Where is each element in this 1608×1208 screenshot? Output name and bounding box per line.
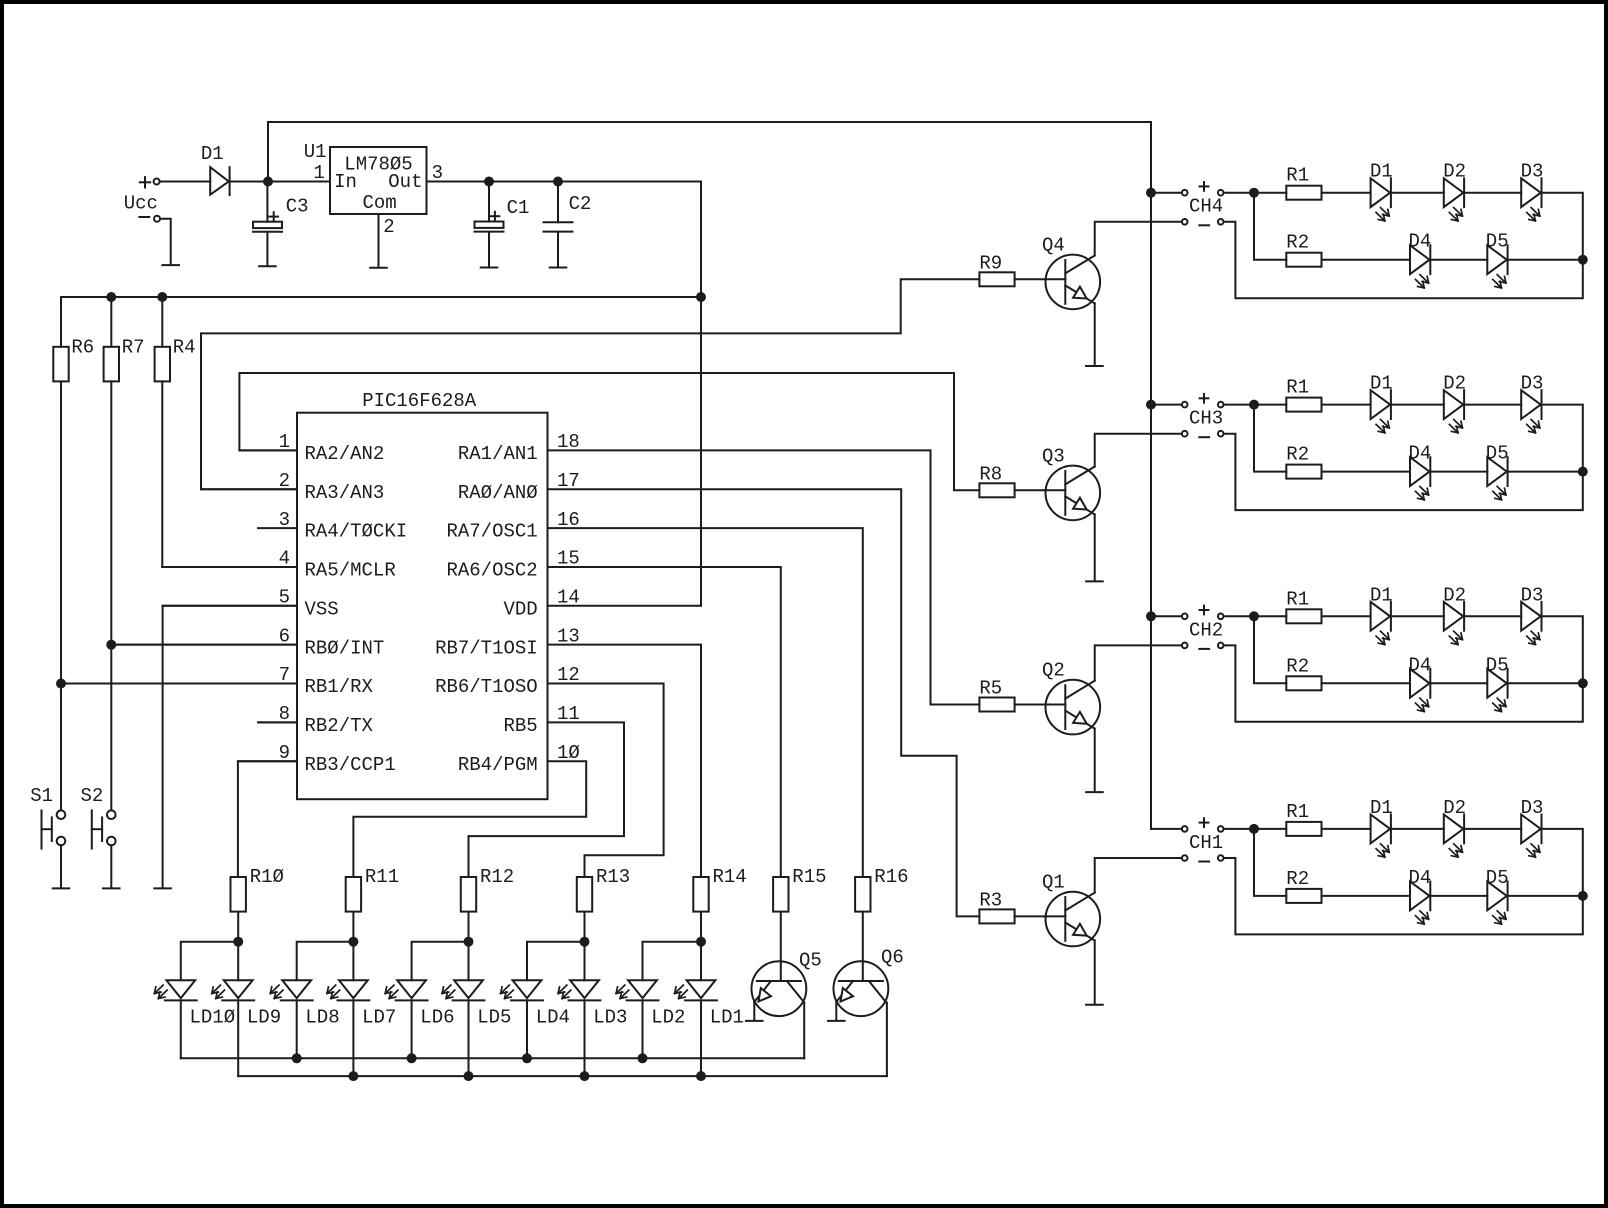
label C3 polarity + <box>269 216 278 218</box>
LED LD9 <box>224 980 253 998</box>
wire C3 top <box>266 182 268 222</box>
wire cathode rail A <box>181 1057 804 1059</box>
svg-text:D5: D5 <box>1486 443 1509 465</box>
LED CH1 D2 <box>1444 815 1464 844</box>
svg-text:C1: C1 <box>507 197 530 219</box>
svg-text:D1: D1 <box>201 143 224 165</box>
wire CH3 R1 to D1 <box>1322 404 1371 406</box>
wire RA3 to R9 route <box>201 279 979 489</box>
svg-text:R8: R8 <box>979 464 1002 486</box>
wire R14 to LED pair <box>700 912 702 942</box>
wire Q4 collector <box>1095 222 1182 256</box>
wire CH4 R2 branch <box>1254 193 1286 260</box>
svg-text:R7: R7 <box>122 337 145 359</box>
junction CH2 plus node <box>1146 611 1156 621</box>
pin 7 RB1/RX <box>61 683 297 685</box>
resistor R10 <box>231 877 246 912</box>
junction CH3 R1/R2 node <box>1249 400 1259 410</box>
resistor CH1 R1 <box>1286 822 1321 836</box>
wire R7 to S2 <box>110 381 112 810</box>
wire CH3 plus feed <box>1151 404 1182 406</box>
svg-text:2: 2 <box>383 216 394 238</box>
junction CH2 string node <box>1578 678 1588 688</box>
junction rail B node <box>464 1071 474 1081</box>
junction CH3 plus node <box>1146 400 1156 410</box>
svg-text:CH4: CH4 <box>1189 196 1223 218</box>
resistor CH4 R1 <box>1286 186 1321 200</box>
resistor CH3 R1 <box>1286 398 1321 412</box>
LED CH2 D4 <box>1410 669 1430 698</box>
svg-text:RA2/AN2: RA2/AN2 <box>305 443 385 465</box>
junction LED pair node <box>580 937 590 947</box>
wire Ucc- to ground <box>160 219 171 265</box>
svg-text:R3: R3 <box>979 890 1002 912</box>
wire branch to even LED <box>297 942 354 981</box>
svg-text:LD1Ø: LD1Ø <box>190 1007 236 1029</box>
LED CH1 D4 <box>1410 882 1430 911</box>
wire CH2 top string return <box>1224 616 1583 722</box>
resistor R9 <box>979 272 1014 286</box>
wire CH1 plus to R1 <box>1224 828 1287 830</box>
svg-text:D4: D4 <box>1409 231 1432 253</box>
node CH1 minus terminal <box>1182 855 1188 861</box>
wire R11 to LED pair <box>352 912 354 942</box>
wire CH2 plus feed <box>1151 615 1182 617</box>
wire CH2 bottom string return <box>1508 682 1583 684</box>
svg-text:RB5: RB5 <box>503 715 537 737</box>
node Ucc + terminal <box>140 181 150 183</box>
wire CH3 D4 to D5 <box>1430 471 1487 473</box>
ground VSS <box>154 887 171 889</box>
wire R8 to Q3 base <box>1015 489 1066 491</box>
svg-text:RA5/MCLR: RA5/MCLR <box>305 560 396 582</box>
svg-text:RA3/AN3: RA3/AN3 <box>305 482 385 504</box>
resistor R16 <box>855 877 870 912</box>
wire R16 to Q6 base <box>862 912 864 981</box>
svg-text:R4: R4 <box>173 337 196 359</box>
wire RB6 to R13 route <box>548 684 664 878</box>
junction RB0 node <box>106 640 116 650</box>
wire VSS to ground <box>163 606 297 888</box>
node CH4 plus terminal <box>1182 190 1188 196</box>
LED CH3 D5 <box>1487 457 1507 486</box>
LED LD4 <box>513 980 542 998</box>
ground U1 Com <box>370 267 387 269</box>
wire C3 to ground <box>266 232 268 266</box>
svg-text:RA4/TØCKI: RA4/TØCKI <box>305 521 408 543</box>
wire RA1 to R5 route <box>548 450 980 704</box>
ground Q4 emitter <box>1086 365 1103 367</box>
wire Q1 emitter to ground <box>1094 941 1096 1004</box>
svg-text:D1: D1 <box>1370 373 1393 395</box>
pin 2 RA3/AN3 <box>201 488 297 490</box>
wire CH2 D1 to D2 <box>1391 615 1444 617</box>
LED CH1 D1 <box>1371 815 1391 844</box>
ground Q1 emitter <box>1086 1004 1103 1006</box>
wire CH4 plus to R1 <box>1224 192 1287 194</box>
op-amp U1 regulator LM7805 box <box>330 147 427 214</box>
wire RA6 to R15 route <box>548 567 781 877</box>
LED LD3 <box>570 980 599 998</box>
wire branch to even LED <box>527 942 585 981</box>
wire C2 top <box>557 182 559 223</box>
wire RB2 stub <box>258 721 297 723</box>
wire Q2 emitter to ground <box>1094 729 1096 792</box>
wire CH2 R2 to D4 <box>1322 682 1411 684</box>
label C1 polarity + <box>491 215 500 217</box>
LED CH2 D1 <box>1371 602 1391 631</box>
svg-text:D2: D2 <box>1443 797 1466 819</box>
junction rail A node <box>638 1053 648 1063</box>
wire R4 to MCLR <box>161 381 163 567</box>
svg-text:Q3: Q3 <box>1042 445 1065 467</box>
resistor R14 <box>693 877 708 912</box>
op-amp U2 PIC16F628A box <box>297 413 548 800</box>
ground Q3 emitter <box>1086 580 1103 582</box>
wire LD8 cathode <box>296 1000 298 1058</box>
wire CH4 D2 to D3 <box>1464 192 1521 194</box>
wire Q1 collector <box>1095 858 1182 893</box>
svg-text:R9: R9 <box>979 253 1002 275</box>
resistor R3 <box>979 909 1014 923</box>
capacitor C3 <box>253 222 282 228</box>
svg-text:CH2: CH2 <box>1189 619 1223 641</box>
wire CH4 D4 to D5 <box>1430 259 1487 261</box>
svg-text:Q2: Q2 <box>1042 660 1065 682</box>
wire CH3 D2 to D3 <box>1464 404 1521 406</box>
LED CH4 D2 <box>1444 178 1464 207</box>
wire Q5 emitter to ground <box>753 1002 755 1020</box>
svg-text:R11: R11 <box>365 866 399 888</box>
svg-text:LD9: LD9 <box>247 1007 281 1029</box>
svg-text:CH3: CH3 <box>1189 408 1223 430</box>
node CH3 minus terminal <box>1182 431 1188 437</box>
svg-text:S1: S1 <box>30 785 53 807</box>
svg-text:LD6: LD6 <box>420 1007 454 1029</box>
node Ucc - terminal <box>139 216 149 218</box>
svg-text:S2: S2 <box>81 785 104 807</box>
node CH3 plus terminal <box>1182 402 1188 408</box>
wire RB1 to S1 line <box>61 683 297 685</box>
svg-text:D3: D3 <box>1521 797 1544 819</box>
LED LD7 <box>339 980 368 998</box>
wire CH1 D4 to D5 <box>1430 895 1487 897</box>
node CH2 minus terminal <box>1182 643 1188 649</box>
svg-text:RB3/CCP1: RB3/CCP1 <box>305 754 396 776</box>
svg-text:C2: C2 <box>569 193 592 215</box>
wire Q2 collector <box>1095 645 1182 680</box>
svg-text:D1: D1 <box>1370 161 1393 183</box>
wire CH3 bottom string return <box>1508 471 1583 473</box>
svg-text:D4: D4 <box>1409 443 1432 465</box>
wire CH1 R1 to D1 <box>1322 828 1371 830</box>
wire branch to odd LED <box>584 942 586 981</box>
wire Vdd rail <box>61 296 701 298</box>
svg-text:D4: D4 <box>1409 654 1432 676</box>
junction RB1 node <box>56 679 66 689</box>
svg-text:RB4/PGM: RB4/PGM <box>458 754 538 776</box>
LED CH4 D1 <box>1371 178 1391 207</box>
junction rail B node <box>580 1071 590 1081</box>
LED CH3 D1 <box>1371 390 1391 419</box>
svg-text:D1: D1 <box>1370 584 1393 606</box>
wire CH1 D2 to D3 <box>1464 828 1521 830</box>
wire CH4 top string return <box>1224 193 1583 299</box>
wire Q5 collector to rail A <box>803 1003 805 1059</box>
svg-text:R6: R6 <box>71 337 94 359</box>
wire Ucc+ to D1 <box>160 181 211 183</box>
wire R3 to Q1 base <box>1015 915 1066 917</box>
pin 6 RB0/INT <box>111 644 297 646</box>
svg-text:LD2: LD2 <box>651 1007 685 1029</box>
wire branch to even LED <box>412 942 469 981</box>
svg-text:LD5: LD5 <box>477 1007 511 1029</box>
svg-text:In: In <box>334 171 357 193</box>
wire RA7 to R16 route <box>548 528 863 877</box>
wire R9 to Q4 base <box>1015 278 1066 280</box>
resistor R8 <box>979 483 1014 497</box>
wire RB3 to R10 <box>238 761 297 877</box>
wire D1 to U1 In <box>230 181 330 183</box>
diode D1 <box>210 167 229 195</box>
svg-text:1: 1 <box>313 162 324 184</box>
junction CH2 R1/R2 node <box>1249 611 1259 621</box>
wire CH1 plus feed <box>1151 828 1182 830</box>
svg-text:D3: D3 <box>1521 584 1544 606</box>
svg-text:LD3: LD3 <box>593 1007 627 1029</box>
pin 5 VSS <box>163 605 297 607</box>
wire S1 to ground <box>60 845 62 887</box>
ground Q6 emitter <box>828 1020 845 1022</box>
resistor R11 <box>346 877 361 912</box>
wire LD3 cathode <box>584 1000 586 1076</box>
svg-text:R1: R1 <box>1286 377 1309 399</box>
wire R4 top <box>161 297 163 347</box>
svg-text:Ucc: Ucc <box>124 193 158 215</box>
pin 8 RB2/TX <box>258 721 297 723</box>
junction rail B node <box>348 1071 358 1081</box>
capacitor C1 <box>475 222 504 228</box>
junction rail A node <box>292 1053 302 1063</box>
junction rail A node <box>522 1053 532 1063</box>
wire S2 to ground <box>110 845 112 887</box>
wire Q6 emitter to ground <box>835 1002 837 1020</box>
svg-text:LD1: LD1 <box>710 1007 744 1029</box>
junction rail A node <box>407 1053 417 1063</box>
junction R7 rail node <box>106 292 116 302</box>
capacitor C2 <box>544 221 573 223</box>
LED CH2 D5 <box>1487 669 1507 698</box>
svg-text:R1: R1 <box>1286 588 1309 610</box>
svg-text:Q1: Q1 <box>1042 871 1065 893</box>
wire LD6 cathode <box>411 1000 413 1058</box>
LED LD8 <box>282 980 311 998</box>
resistor R6 <box>53 347 68 382</box>
resistor R13 <box>577 877 592 912</box>
LED CH3 D3 <box>1521 390 1541 419</box>
wire branch to even LED <box>643 942 702 981</box>
ground Q5 emitter <box>746 1020 763 1022</box>
node CH4 minus terminal <box>1182 219 1188 225</box>
wire VDD to rail <box>548 605 702 607</box>
resistor R5 <box>979 698 1014 712</box>
svg-text:D3: D3 <box>1521 373 1544 395</box>
LED CH4 D4 <box>1410 245 1430 274</box>
wire R6 top <box>60 297 62 347</box>
resistor CH4 R2 <box>1286 253 1321 267</box>
ground Q2 emitter <box>1086 791 1103 793</box>
svg-text:R12: R12 <box>480 866 514 888</box>
svg-text:D5: D5 <box>1486 231 1509 253</box>
resistor R7 <box>104 347 119 382</box>
resistor R4 <box>155 347 170 382</box>
svg-text:Q4: Q4 <box>1042 234 1065 256</box>
wire LD10 cathode <box>180 1000 182 1058</box>
wire branch to odd LED <box>352 942 354 981</box>
wire Vdd riser <box>700 182 702 606</box>
svg-text:RAØ/ANØ: RAØ/ANØ <box>458 482 538 504</box>
wire LD1 cathode <box>700 1000 702 1076</box>
LED CH1 D5 <box>1487 882 1507 911</box>
svg-text:3: 3 <box>279 509 290 531</box>
junction input node <box>263 177 273 187</box>
wire R10 to LED pair <box>237 912 239 942</box>
wire LD4 cathode <box>526 1000 528 1058</box>
wire R5 to Q2 base <box>1015 704 1066 706</box>
pin 1 RA2/AN2 <box>239 449 297 451</box>
pin 3 RA4/T0CKI <box>258 527 297 529</box>
wire CH1 bottom string return <box>1508 895 1583 897</box>
LED LD5 <box>454 980 483 998</box>
svg-text:R1: R1 <box>1286 165 1309 187</box>
svg-text:D3: D3 <box>1521 161 1544 183</box>
wire branch to odd LED <box>237 942 239 981</box>
wire CH3 R2 to D4 <box>1322 471 1411 473</box>
wire CH2 D4 to D5 <box>1430 682 1487 684</box>
resistor CH1 R2 <box>1286 889 1321 903</box>
svg-text:D5: D5 <box>1486 867 1509 889</box>
junction rail B node <box>696 1071 706 1081</box>
svg-text:RB6/T1OSO: RB6/T1OSO <box>435 676 538 698</box>
transistor Q4 <box>1046 255 1101 310</box>
LED LD1 <box>687 980 716 998</box>
junction LED pair node <box>696 937 706 947</box>
wire input riser to top rail <box>267 122 269 182</box>
wire CH2 D2 to D3 <box>1464 615 1521 617</box>
wire R12 to LED pair <box>468 912 470 942</box>
svg-text:RBØ/INT: RBØ/INT <box>305 637 385 659</box>
LED LD2 <box>628 980 657 998</box>
wire C2 to ground <box>557 232 559 267</box>
LED LD6 <box>397 980 426 998</box>
wire LD9 cathode <box>237 1000 239 1076</box>
wire Q3 emitter to ground <box>1094 514 1096 580</box>
junction CH4 plus node <box>1146 188 1156 198</box>
svg-text:D5: D5 <box>1486 654 1509 676</box>
svg-text:R2: R2 <box>1286 232 1309 254</box>
junction R4 rail node <box>157 292 167 302</box>
transistor Q6 <box>834 961 889 1016</box>
pin 2 Com wire to ground <box>378 214 380 267</box>
svg-text:D2: D2 <box>1443 584 1466 606</box>
junction CH1 R1/R2 node <box>1249 824 1259 834</box>
wire CH4 R2 to D4 <box>1322 259 1411 261</box>
svg-text:LD4: LD4 <box>536 1007 570 1029</box>
wire CH2 plus to R1 <box>1224 615 1287 617</box>
pin 4 RA5/MCLR <box>162 566 297 568</box>
LED CH4 D3 <box>1521 178 1541 207</box>
svg-text:R1: R1 <box>1286 801 1309 823</box>
junction LED pair node <box>233 937 243 947</box>
wire branch to odd LED <box>468 942 470 981</box>
junction Vdd rail node <box>696 292 706 302</box>
wire RB0 to S2 line <box>111 644 297 646</box>
wire RB7 to R14 route <box>548 645 702 877</box>
wire CH1 R2 branch <box>1254 829 1286 896</box>
ground S1 <box>53 887 70 889</box>
resistor R12 <box>461 877 476 912</box>
svg-text:Out: Out <box>388 171 422 193</box>
wire cathode rail B <box>238 1075 887 1077</box>
svg-text:R2: R2 <box>1286 655 1309 677</box>
wire LD7 cathode <box>352 1000 354 1076</box>
svg-text:RA7/OSC1: RA7/OSC1 <box>446 521 537 543</box>
ground S2 <box>103 887 120 889</box>
transistor Q5 <box>752 961 807 1016</box>
svg-text:VSS: VSS <box>305 598 339 620</box>
ground C2 <box>550 267 567 269</box>
wire CH3 top string return <box>1224 405 1583 511</box>
svg-text:RB7/T1OSI: RB7/T1OSI <box>435 637 538 659</box>
junction LED pair node <box>464 937 474 947</box>
wire CH2 R2 branch <box>1254 616 1286 683</box>
wire CH3 R2 branch <box>1254 405 1286 472</box>
ground C1 <box>481 267 498 269</box>
ground C3 <box>259 265 276 267</box>
wire R15 to Q5 base <box>780 912 782 981</box>
LED CH3 D2 <box>1444 390 1464 419</box>
junction CH1 string node <box>1578 891 1588 901</box>
wire RA2 to R8 route <box>239 373 979 490</box>
resistor CH2 R1 <box>1286 609 1321 623</box>
wire branch to even LED <box>181 942 238 981</box>
transistor Q3 <box>1046 466 1101 521</box>
transistor Q1 <box>1046 892 1101 947</box>
svg-text:R13: R13 <box>596 866 630 888</box>
pin 9 RB3/CCP1 <box>238 760 297 762</box>
wire R13 to LED pair <box>584 912 586 942</box>
junction C1 node <box>484 177 494 187</box>
svg-text:LD7: LD7 <box>362 1007 396 1029</box>
wire CH4 R1 to D1 <box>1322 192 1371 194</box>
junction CH4 R1/R2 node <box>1249 188 1259 198</box>
svg-text:RA6/OSC2: RA6/OSC2 <box>446 560 537 582</box>
wire LD5 cathode <box>468 1000 470 1076</box>
svg-text:U1: U1 <box>304 141 327 163</box>
svg-text:Q5: Q5 <box>799 950 822 972</box>
svg-text:D4: D4 <box>1409 867 1432 889</box>
wire CH4 bottom string return <box>1508 259 1583 261</box>
wire Q6 collector to rail B <box>886 1003 888 1077</box>
LED CH4 D5 <box>1487 245 1507 274</box>
wire LD2 cathode <box>642 1000 644 1058</box>
wire CH3 plus to R1 <box>1224 404 1287 406</box>
svg-text:LD8: LD8 <box>305 1007 339 1029</box>
svg-text:C3: C3 <box>286 195 309 217</box>
wire C1 to ground <box>488 232 490 267</box>
node CH1 plus terminal <box>1182 826 1188 832</box>
wire top rail <box>268 121 1151 123</box>
